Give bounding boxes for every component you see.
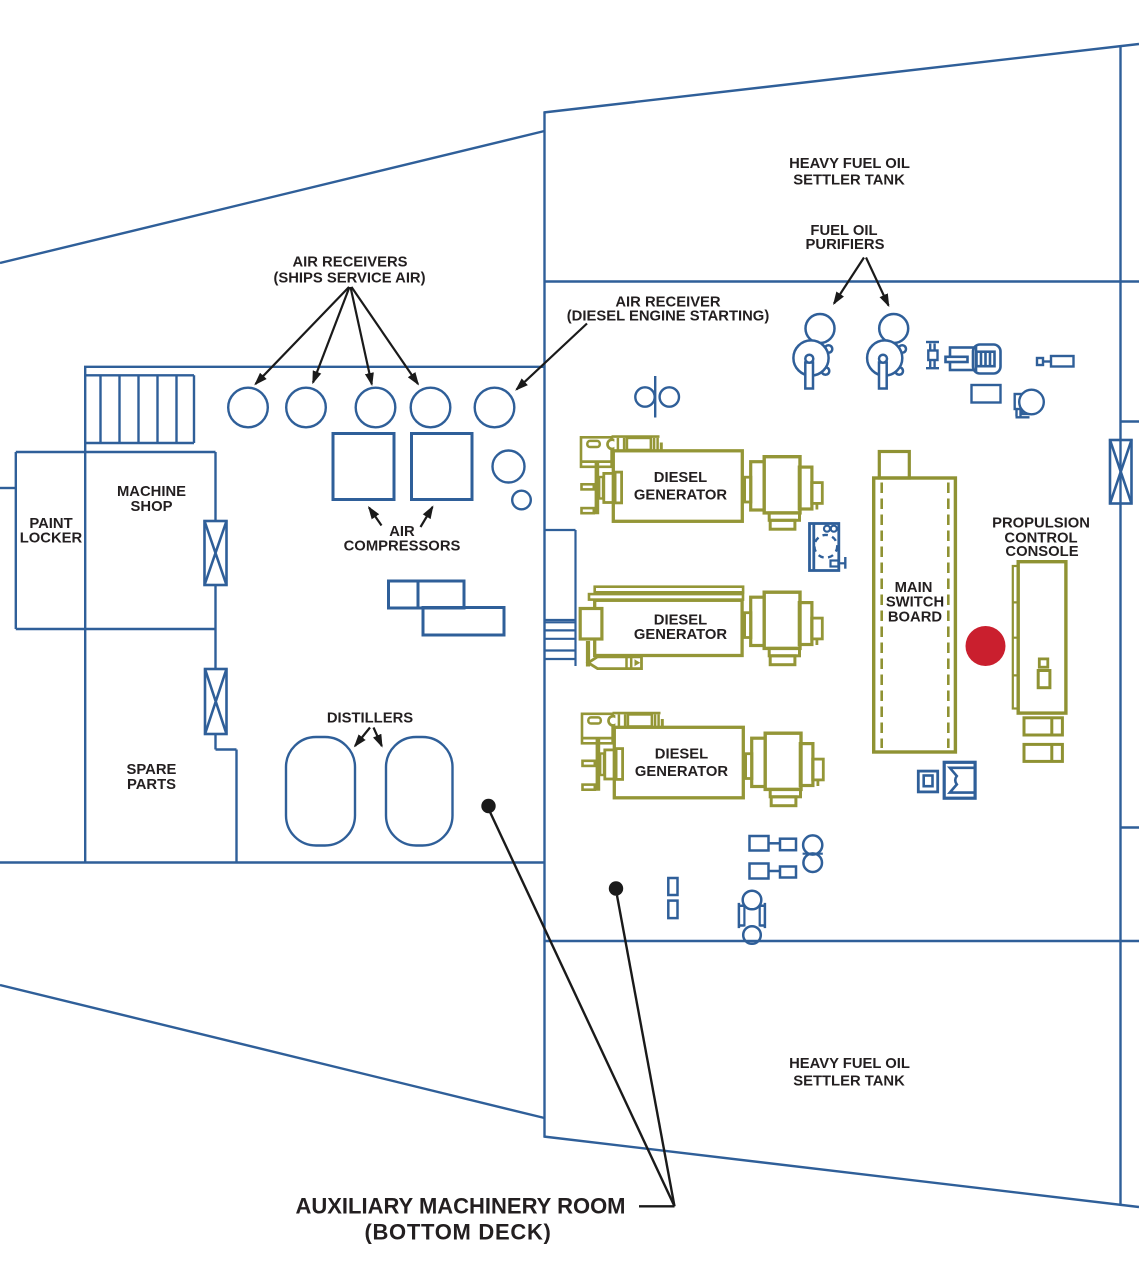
MSB dashed line right xyxy=(947,483,950,749)
bracket outer square xyxy=(944,762,975,798)
purifier1 hub circle xyxy=(805,355,813,363)
air compressor 1 xyxy=(333,434,394,500)
DG2 bullet body xyxy=(588,657,641,669)
svg-text:AIR RECEIVERS: AIR RECEIVERS xyxy=(292,254,407,270)
small tanks right of compressors xyxy=(493,451,531,510)
DG3 engine band bar3 xyxy=(654,714,657,726)
DG1 engine band bar3 xyxy=(653,438,656,450)
small tank circle big xyxy=(493,451,525,483)
DG1 gen end notch xyxy=(816,503,819,509)
purifier2 top circle xyxy=(879,314,908,343)
leader dot 2 xyxy=(609,881,623,895)
twin circles tangent line xyxy=(803,853,823,855)
wire machine shop right wall mid xyxy=(214,585,216,669)
SMALL EQUIPMENT top right xyxy=(926,342,939,368)
air receiver tank 2 xyxy=(286,388,326,428)
arrow compressor left xyxy=(369,508,382,526)
SQUARE-IN-SQUARE unit xyxy=(918,771,937,792)
console lower rect 2 divider xyxy=(1050,744,1053,761)
leader line 1 xyxy=(490,812,675,1206)
circle unit base bar xyxy=(1016,416,1030,418)
AIR RECEIVER TANKS (5 circles) xyxy=(228,388,514,428)
workbench rect small xyxy=(389,581,419,608)
injector I-beam bottom stem xyxy=(930,360,934,367)
wire spare parts right wall xyxy=(235,750,237,863)
wire spare parts wall below valve xyxy=(214,734,216,750)
wire top wall y=366.8 left compartment xyxy=(84,366,545,368)
DG1 gen step1 xyxy=(769,513,799,520)
valve V1 cross xyxy=(205,521,227,585)
pump-motor grid lines xyxy=(981,352,990,367)
ladder rungs xyxy=(545,622,576,659)
purifier1 bowl circle xyxy=(793,340,828,375)
circle unit circle xyxy=(1019,390,1044,415)
svg-text:SETTLER TANK: SETTLER TANK xyxy=(793,172,905,188)
svg-text:PARTS: PARTS xyxy=(127,777,176,793)
DG2 gen end notch xyxy=(816,639,819,645)
workbench rect big xyxy=(423,608,504,636)
DG1 engine C-circle gap xyxy=(614,438,617,450)
pump-motor inner grid xyxy=(977,352,995,367)
DG1 engine band stub xyxy=(660,443,663,453)
DG1 gen flange left xyxy=(751,462,766,510)
console inner rect xyxy=(1038,671,1050,688)
DG1 gen connector xyxy=(745,477,751,502)
stairs rails xyxy=(85,375,194,443)
DG1 engine band bar2 xyxy=(623,438,626,450)
distiller 1 xyxy=(286,737,355,846)
DG3 engine band bar1 xyxy=(618,714,621,726)
air receiver tank 5 (diesel engine starting) xyxy=(475,388,515,428)
pump side fitting box xyxy=(831,561,839,567)
wire hull bottom-left diagonal xyxy=(0,985,545,1118)
svg-text:(BOTTOM DECK): (BOTTOM DECK) xyxy=(364,1220,551,1245)
WORKBENCH stepped rectangles xyxy=(389,581,505,635)
DISTILLERS xyxy=(286,737,453,846)
svg-text:CONSOLE: CONSOLE xyxy=(1005,544,1078,560)
AIR COMPRESSORS (2 squares) xyxy=(333,434,472,500)
svg-text:GENERATOR: GENERATOR xyxy=(634,627,727,643)
valve V2 cross xyxy=(205,669,227,734)
pump-motor left slot xyxy=(946,357,968,362)
valve V3 cross xyxy=(1110,440,1132,504)
svg-text:(SHIPS SERVICE AIR): (SHIPS SERVICE AIR) xyxy=(273,270,425,286)
wire frame tick y=421 xyxy=(1121,420,1139,422)
red position marker xyxy=(966,626,1006,666)
DG2 gen flange right xyxy=(799,603,812,645)
DG2 gen step2 xyxy=(770,656,795,665)
BOTTOM EQUIPMENT cluster xyxy=(668,835,823,943)
DG3 engine C-circle gap xyxy=(615,715,618,727)
STAIRS top-left xyxy=(85,375,194,443)
FUEL OIL PURIFIER 1 xyxy=(793,314,834,389)
wire rooms mid wall y=629 xyxy=(16,628,216,630)
leader dash to title xyxy=(639,1205,675,1207)
pump side fitting flange xyxy=(844,557,846,569)
DG1 engine block B xyxy=(615,472,622,503)
square outer xyxy=(918,771,937,792)
pump side fitting line xyxy=(839,562,846,564)
DG3 engine band bar2 xyxy=(624,714,627,726)
DG3 gen end cap xyxy=(813,759,824,780)
DG3 engine box divider xyxy=(582,737,613,740)
BLUE PUMP unit beside generator 1 xyxy=(810,524,846,571)
stairs treads xyxy=(101,375,195,443)
small tank circle small xyxy=(512,491,531,510)
svg-text:HEAVY FUEL OIL: HEAVY FUEL OIL xyxy=(789,1056,910,1072)
small rect a xyxy=(668,878,677,895)
pump cabinet rect xyxy=(810,524,839,571)
DG1 engine top box xyxy=(581,437,612,467)
injector I-beam bottom bar xyxy=(926,367,939,369)
DG3 gen step2 xyxy=(771,797,796,806)
DG3 engine band bottom xyxy=(613,726,661,729)
wire left edge stub y=488 xyxy=(0,487,16,489)
DG2 gen end cap xyxy=(812,618,823,639)
unit pair row1 square xyxy=(750,836,769,851)
wire deck line y=941 right side xyxy=(545,940,1139,942)
purifier1 bump top xyxy=(825,345,833,353)
arrow compressor right xyxy=(421,507,433,527)
small unit rect xyxy=(1051,356,1074,367)
wire main bulkhead vertical x=544 xyxy=(543,112,545,1137)
leader line 2 xyxy=(617,896,675,1207)
fan circle right xyxy=(660,387,679,406)
BRACKET/SIGMA unit xyxy=(944,762,975,798)
console lower rect 1 divider xyxy=(1050,718,1053,735)
air compressor 2 xyxy=(412,434,473,500)
DG2 gen body xyxy=(764,592,800,648)
DG3 engine band stub xyxy=(661,719,664,729)
pump small circle a xyxy=(824,526,830,532)
console left strip dividers xyxy=(1013,602,1018,675)
purifier2 bowl circle xyxy=(867,340,902,375)
svg-text:COMPRESSORS: COMPRESSORS xyxy=(344,539,461,555)
purifier1 bump bottom xyxy=(822,367,830,375)
DG2 gen flange left xyxy=(751,597,766,645)
DG3 gen flange right xyxy=(800,744,813,786)
console inner small square xyxy=(1039,659,1048,667)
LEADER LINES to title xyxy=(481,799,674,1207)
purifier2 stem xyxy=(879,363,887,389)
arrow purifiers left xyxy=(834,258,864,304)
ARROWS xyxy=(256,258,889,747)
DG1 gen flange right xyxy=(799,467,812,509)
DG2 bullet bars xyxy=(627,657,632,669)
DG1 engine C-circle xyxy=(608,440,617,449)
arrow distiller right xyxy=(374,728,382,747)
pump-motor body rect xyxy=(950,348,976,371)
DG3 engine band top xyxy=(613,712,661,715)
DG2 gen step1 xyxy=(769,648,799,655)
DG1 left protrusion b xyxy=(582,508,594,513)
arrow fan to air receiver 1 xyxy=(256,287,350,384)
injector I-beam top bar xyxy=(926,341,939,343)
svg-text:GENERATOR: GENERATOR xyxy=(634,487,727,503)
wire hull top-left diagonal xyxy=(0,131,545,263)
svg-text:SHOP: SHOP xyxy=(131,499,173,515)
DIESEL GENERATOR 1 xyxy=(581,437,822,530)
DG3 main skid rect xyxy=(614,727,743,798)
pump-motor rounded head xyxy=(973,345,1001,374)
unit pair row1 link xyxy=(769,842,781,845)
DG1 gen body xyxy=(764,457,800,513)
svg-text:(DIESEL ENGINE STARTING): (DIESEL ENGINE STARTING) xyxy=(567,308,770,324)
wire rooms top wall y=452 xyxy=(16,451,216,453)
leader dot 1 xyxy=(481,799,495,813)
DG1 engine trunk bar xyxy=(595,463,600,514)
svg-text:LOCKER: LOCKER xyxy=(20,530,83,546)
arrow fan to air receiver 3 xyxy=(351,287,372,384)
purifier2 bump bottom xyxy=(895,367,903,375)
svg-text:SWITCH: SWITCH xyxy=(886,594,944,610)
DG1 engine box divider xyxy=(581,460,612,463)
DG3 gen flange left xyxy=(752,738,767,786)
DG2 top rail 2 xyxy=(589,594,743,600)
DG2 left hook xyxy=(586,641,590,667)
purifier1 stem xyxy=(805,363,813,389)
wire right longitudinal bulkhead x=1120 xyxy=(1119,45,1121,1204)
unit pair row1 rect xyxy=(780,839,796,851)
bracket sigma shape xyxy=(950,768,974,793)
wire left wall x=85 xyxy=(84,367,86,863)
MSB top cabinet xyxy=(879,452,909,479)
DG3 gen connector xyxy=(746,754,752,779)
DG3 engine C-circle xyxy=(609,716,618,725)
unit pair row2 rect xyxy=(780,867,796,878)
DG3 left protrusion b xyxy=(583,785,595,790)
svg-text:HEAVY FUEL OIL: HEAVY FUEL OIL xyxy=(789,156,910,172)
svg-text:AUXILIARY MACHINERY ROOM: AUXILIARY MACHINERY ROOM xyxy=(295,1194,625,1219)
pump small circle b xyxy=(831,526,837,532)
DG3 engine block bracket xyxy=(600,754,604,776)
DG3 engine box inner rounded xyxy=(588,717,601,723)
flanged pump left bracket xyxy=(739,903,745,928)
DG1 left protrusion a xyxy=(582,484,594,489)
wire frame tick y=827 xyxy=(1121,826,1139,828)
PROPULSION CONTROL CONSOLE xyxy=(1013,562,1066,762)
DG3 gen step1 xyxy=(770,789,800,796)
purifier2 bump top xyxy=(898,345,906,353)
small rect b xyxy=(668,901,677,919)
DIESEL GENERATOR 2 xyxy=(580,587,822,669)
DG1 engine block A xyxy=(604,473,614,502)
DG1 main skid rect xyxy=(613,451,742,522)
arrow fan to air receiver 2 xyxy=(313,287,350,383)
svg-text:GENERATOR: GENERATOR xyxy=(635,764,728,780)
DG1 engine box inner rounded xyxy=(587,441,600,447)
flanged pump top circle xyxy=(743,891,762,910)
svg-text:DISTILLERS: DISTILLERS xyxy=(327,710,413,726)
svg-text:PROPULSION: PROPULSION xyxy=(992,516,1090,532)
flanged pump right bracket xyxy=(760,903,765,928)
svg-text:BOARD: BOARD xyxy=(888,609,943,625)
air receiver tank 4 xyxy=(411,388,451,428)
valve V3 box right bulkhead xyxy=(1110,440,1132,504)
square inner xyxy=(924,776,933,787)
flanged pump body sides xyxy=(744,905,759,927)
wire spare parts step horizontal xyxy=(216,748,237,750)
arrow to air receiver 5 xyxy=(517,324,588,390)
workbench rect mid xyxy=(418,581,464,608)
valve V1 box xyxy=(205,521,227,585)
DG1 engine band top xyxy=(612,435,660,438)
DG3 engine band bar4 xyxy=(657,714,660,726)
DG3 gen body xyxy=(765,733,801,789)
MSB main cabinet xyxy=(874,478,956,752)
svg-text:AIR: AIR xyxy=(389,524,415,540)
DG2 gen connector xyxy=(745,613,751,638)
pump cabinet inner wall xyxy=(812,524,815,571)
unit pair row2 link xyxy=(769,870,781,873)
DG1 engine band bar4 xyxy=(656,438,659,450)
LADDER platform on bulkhead x=544 xyxy=(545,530,576,666)
small unit square xyxy=(1037,358,1043,365)
DG2 top rail 1 xyxy=(595,587,743,593)
DG3 engine trunk bar xyxy=(596,739,601,790)
twin circles lower xyxy=(803,853,822,872)
svg-text:MACHINE: MACHINE xyxy=(117,484,186,500)
DG1 gen step2 xyxy=(770,520,795,529)
valve V2 box xyxy=(205,669,227,734)
svg-text:SETTLER TANK: SETTLER TANK xyxy=(793,1073,905,1089)
svg-text:DIESEL: DIESEL xyxy=(654,470,707,486)
ladder platform rect xyxy=(545,530,576,666)
console left strip xyxy=(1013,566,1018,709)
purifier2 hub circle xyxy=(879,355,887,363)
arrow purifiers right xyxy=(866,258,889,306)
DG3 engine band wide rect xyxy=(628,714,652,726)
DG1 engine band bar1 xyxy=(617,438,620,450)
DG1 engine block bracket xyxy=(599,477,603,499)
DG1 engine band bottom xyxy=(612,450,660,453)
DG3 engine block B xyxy=(616,749,623,780)
purifier1 top circle xyxy=(806,314,835,343)
MAIN SWITCH BOARD xyxy=(874,452,956,753)
wire machine shop right wall upper xyxy=(214,452,216,521)
fan circle left xyxy=(635,387,654,406)
plain rect tank xyxy=(972,385,1001,403)
injector I-beam mid box xyxy=(928,351,937,361)
wire paint locker left edge xyxy=(15,452,17,629)
flanged pump bottom circle xyxy=(743,926,761,944)
console main cabinet xyxy=(1018,562,1066,713)
svg-text:SPARE: SPARE xyxy=(127,762,177,778)
circle unit small square xyxy=(1022,407,1028,414)
DG3 gen end notch xyxy=(817,780,820,786)
arrow distiller left xyxy=(355,728,370,747)
console lower rect 1 xyxy=(1024,718,1062,735)
DG1 gen end cap xyxy=(812,483,823,504)
DG2 main skid rect xyxy=(595,600,742,655)
MSB dashed line left xyxy=(880,483,883,749)
pump dashed impeller circle xyxy=(814,535,837,558)
DG3 left protrusion a xyxy=(583,761,595,766)
DG3 engine block A xyxy=(605,750,615,779)
wire bottom wall y=862.5 left side xyxy=(0,861,545,863)
FUEL OIL PURIFIER 2 xyxy=(867,314,908,389)
unit pair row2 square xyxy=(750,864,769,879)
air receiver tank 1 xyxy=(228,388,268,428)
DG1 engine band wide rect xyxy=(627,438,651,450)
DG2 left attach box xyxy=(580,609,602,640)
injector I-beam top stem xyxy=(930,344,934,351)
circle unit left rect xyxy=(1015,394,1023,409)
circle unit stem xyxy=(1017,409,1021,417)
VALVES on machine shop wall xyxy=(205,440,1132,734)
twin circles upper xyxy=(803,835,822,854)
wire deck line y=281 right side xyxy=(545,280,1139,282)
wire hull bottom-right diagonal xyxy=(544,1137,1139,1208)
fan shaft line xyxy=(654,376,656,418)
DG2 bullet tip xyxy=(635,659,641,666)
air receiver tank 3 xyxy=(356,388,396,428)
console lower rect 2 xyxy=(1024,744,1062,761)
small unit link line xyxy=(1043,360,1051,362)
svg-text:DIESEL: DIESEL xyxy=(655,746,708,762)
wire hull top-right diagonal xyxy=(544,44,1139,113)
svg-text:PURIFIERS: PURIFIERS xyxy=(806,237,885,253)
SUPPLY FAN symbol xyxy=(635,376,679,418)
DIESEL GENERATOR 3 xyxy=(582,713,823,806)
arrow fan to air receiver 4 xyxy=(352,287,419,384)
DG3 engine top box xyxy=(582,714,613,744)
distiller 2 xyxy=(386,737,453,846)
